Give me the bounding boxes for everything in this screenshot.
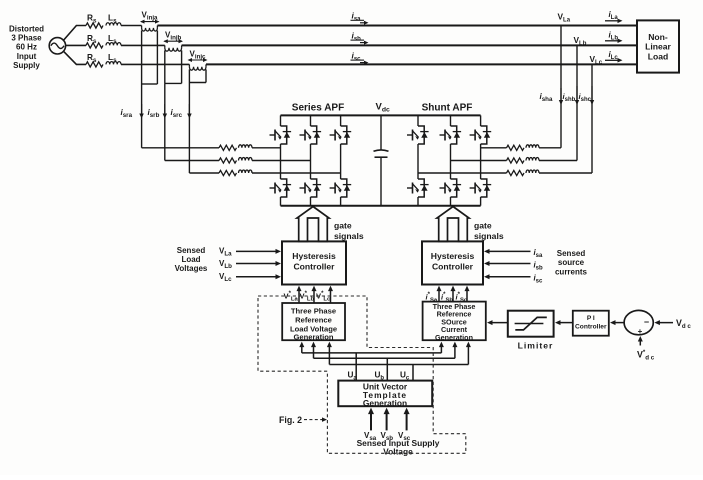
wire reference V*La to hysteresis controller (298, 289, 300, 304)
svg-text:source: source (558, 258, 585, 267)
svg-text:Sensed: Sensed (177, 246, 206, 255)
wire series filter to bridge leg 2 (252, 160, 311, 162)
wire transformer a secondary to series filter (isra) (141, 84, 143, 148)
svg-text:Generation: Generation (363, 398, 407, 408)
svg-text:Input: Input (17, 52, 37, 61)
svg-text:Supply: Supply (13, 61, 40, 70)
block Three Phase Reference Load Voltage Generation (282, 303, 345, 340)
dashed boundary of Fig.2 reference generation scheme (258, 296, 466, 453)
IGBT series APF leg3 lower with antiparallel diode (330, 179, 352, 197)
wire series bridge leg3 (340, 115, 342, 126)
wire shunt filter up to bus phase a (539, 147, 561, 149)
IGBT shunt APF leg2 lower with antiparallel diode (440, 179, 462, 197)
injection transformer Vinjc primary coil (188, 64, 190, 66)
resistor Rs phase c (86, 62, 103, 67)
wire series filter to bridge leg 1 (252, 147, 281, 149)
svg-text:Voltages: Voltages (175, 264, 208, 273)
resistor Rs phase a (86, 23, 103, 28)
svg-text:Sensed: Sensed (557, 249, 586, 258)
wire reference V*Lc to hysteresis controller (330, 289, 332, 304)
block PI Controller (573, 311, 609, 336)
capacitor Cdc (380, 115, 382, 150)
wire sensed load voltage VLa into controller (236, 250, 278, 252)
inductor shunt filter phase b (526, 157, 539, 160)
wire Uc distribution rail (329, 364, 468, 366)
wire source to phase b (66, 44, 86, 46)
svg-text:Load: Load (648, 51, 669, 61)
wire reference i*Sc to hysteresis controller (466, 289, 468, 302)
inductor series filter phase c (239, 170, 253, 173)
wire sensed supply voltage Vsa into unit vector block (370, 411, 372, 431)
resistor shunt filter phase b (507, 158, 525, 163)
wire series filter to bridge leg 3 (252, 172, 341, 174)
wire phase a bus to load (157, 25, 637, 27)
wire DC bus top rail (281, 114, 481, 116)
IGBT shunt APF leg2 upper with antiparallel diode (440, 126, 462, 144)
wire Vdc reference into summing junction (639, 338, 641, 345)
wire series bridge leg2 (310, 115, 312, 126)
svg-text:signals: signals (334, 231, 364, 241)
wire shunt bridge leg2 (450, 115, 452, 126)
wire phase b to transformer (121, 44, 165, 46)
wire sensed load voltage VLb into controller (236, 263, 278, 265)
wire Ua distribution rail (302, 352, 442, 354)
svg-text:currents: currents (555, 268, 588, 277)
resistor shunt filter phase c (507, 170, 525, 175)
injection transformer Vinjb primary coil (164, 45, 166, 47)
wire Ub stub (386, 358, 388, 380)
block Hysteresis Controller (shunt) (422, 241, 483, 284)
IGBT shunt APF leg3 lower with antiparallel diode (470, 179, 492, 197)
wire sensed source current isc into controller (488, 276, 531, 278)
svg-text:+: + (638, 327, 643, 336)
IGBT shunt APF leg1 lower with antiparallel diode (407, 179, 429, 197)
IGBT shunt APF leg1 upper with antiparallel diode (407, 126, 429, 144)
wire shunt bridge leg to filter phase c (418, 172, 507, 174)
wire sensed supply voltage Vsb into unit vector block (386, 411, 388, 431)
wire shunt bridge leg to filter phase a (481, 147, 507, 149)
inductor Ls phase a (106, 23, 121, 26)
wire PI controller output to limiter (557, 322, 573, 324)
wire shunt filter up to bus phase c (539, 172, 592, 174)
svg-text:Controller: Controller (432, 262, 474, 272)
wire summing junction to PI controller (612, 322, 624, 324)
svg-text:Hysteresis: Hysteresis (431, 251, 475, 261)
svg-text:Reference: Reference (295, 316, 332, 325)
wire series bridge leg1 (280, 115, 282, 126)
wire phase c to transformer (121, 63, 189, 65)
summing junction (624, 310, 653, 334)
block Non-Linear Load (637, 20, 679, 72)
svg-text:Hysteresis: Hysteresis (292, 251, 336, 261)
wire shunt bridge leg3 (480, 115, 482, 126)
resistor series filter phase b (219, 158, 237, 163)
inductor shunt filter phase a (526, 145, 539, 148)
svg-text:Series APF: Series APF (292, 103, 344, 114)
block Unit Vector Template Generation (338, 381, 432, 407)
resistor Rs phase b (86, 43, 103, 48)
wire shunt bridge leg to filter phase b (451, 160, 507, 162)
transformer Vinja secondary winding (141, 31, 143, 85)
resistor shunt filter phase a (507, 145, 525, 150)
wire reference i*Sb to hysteresis controller (452, 289, 454, 302)
wire sensed supply voltage Vsc into unit vector block (406, 411, 408, 431)
resistor series filter phase c (219, 170, 237, 175)
svg-text:Limiter: Limiter (518, 341, 554, 351)
inductor series filter phase b (239, 158, 253, 161)
svg-text:Non-: Non- (648, 32, 668, 42)
svg-text:3 Phase: 3 Phase (11, 34, 42, 43)
svg-text:60 Hz: 60 Hz (16, 43, 37, 52)
IGBT series APF leg3 upper with antiparallel diode (330, 126, 352, 144)
wire phase b bus to load (182, 44, 637, 46)
inductor Ls phase b (106, 43, 121, 46)
svg-text:−: − (644, 317, 649, 327)
IGBT series APF leg1 upper with antiparallel diode (270, 126, 292, 144)
injection transformer Vinja primary coil (141, 26, 143, 28)
block Hysteresis Controller (series) (282, 241, 346, 284)
svg-text:gate: gate (474, 221, 492, 231)
limiter saturation symbol (515, 323, 544, 325)
transformer Vinjc secondary winding (188, 69, 190, 82)
svg-text:signals: signals (474, 231, 504, 241)
wire reference V*Lb to hysteresis controller (313, 289, 315, 304)
svg-text:Three Phase: Three Phase (291, 307, 336, 316)
svg-text:Fig. 2: Fig. 2 (279, 415, 302, 425)
gate signal arrows shunt APF (437, 207, 469, 242)
inductor shunt filter phase c (526, 170, 539, 173)
IGBT series APF leg2 lower with antiparallel diode (300, 179, 322, 197)
svg-text:Generation: Generation (435, 333, 473, 342)
wire Uc stub (412, 365, 414, 381)
wire shunt bridge leg1 (417, 115, 419, 126)
inductor Ls phase c (106, 62, 121, 65)
svg-text:Voltage: Voltage (383, 447, 413, 457)
AC source V (distorted 3-phase supply) (49, 38, 65, 54)
svg-text:Controller: Controller (293, 262, 335, 272)
svg-text:Shunt APF: Shunt APF (422, 103, 473, 114)
wire DC bus bottom rail (281, 205, 481, 207)
wire sensed source current isa into controller (488, 250, 531, 252)
svg-text:Distorted: Distorted (9, 25, 44, 34)
block Three Phase Reference Source Current Generation (423, 302, 486, 341)
svg-text:Load: Load (181, 255, 200, 264)
wire Vdc feedback into summing junction (657, 322, 673, 324)
wire Ua stub (355, 353, 357, 381)
wire transformer b secondary to series filter (isrb) (164, 83, 166, 160)
block Limiter (508, 311, 554, 337)
wire source to phase c (63, 51, 86, 64)
wire source to phase a (63, 26, 86, 41)
resistor series filter phase a (219, 145, 237, 150)
wire reference i*Sa to hysteresis controller (438, 289, 440, 302)
gate signal arrows series APF (297, 207, 329, 242)
wire transformer c secondary to series filter (isrc) (188, 83, 190, 174)
wire phase a to transformer (121, 25, 142, 27)
IGBT shunt APF leg3 upper with antiparallel diode (470, 126, 492, 144)
svg-text:Generation: Generation (293, 333, 333, 342)
wire phase c bus to load (206, 63, 637, 65)
svg-text:gate: gate (334, 221, 352, 231)
wire limiter output to source current generation (489, 322, 508, 324)
IGBT series APF leg1 lower with antiparallel diode (270, 179, 292, 197)
wire sensed load voltage VLc into controller (236, 276, 278, 278)
wire shunt filter up to bus phase b (539, 160, 577, 162)
svg-text:P I: P I (587, 315, 595, 322)
IGBT series APF leg2 upper with antiparallel diode (300, 126, 322, 144)
wire sensed source current isb into controller (488, 263, 531, 265)
wire Ub distribution rail (314, 357, 455, 359)
svg-text:Controller: Controller (575, 324, 607, 331)
svg-text:Linear: Linear (645, 42, 671, 52)
transformer Vinjb secondary winding (164, 50, 166, 83)
inductor series filter phase a (239, 145, 253, 148)
